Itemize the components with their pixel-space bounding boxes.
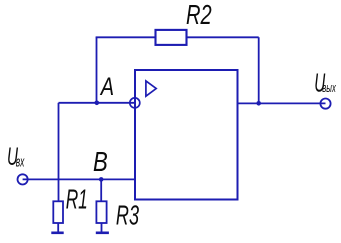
wire node B vertical to R3 — [100, 179, 102, 201]
wire feedback left vertical — [96, 37, 98, 103]
wire input horizontal — [23, 178, 135, 180]
svg-text:R1: R1 — [66, 184, 88, 215]
node A junction — [95, 101, 100, 106]
resistor R1 — [53, 201, 63, 223]
input terminal circle — [18, 174, 28, 184]
node B junction — [99, 177, 104, 182]
ground R1 — [51, 232, 63, 235]
wire R1 ground stub — [57, 223, 59, 232]
wire output horizontal — [238, 102, 326, 104]
wire node A horizontal — [59, 102, 135, 104]
wire left vertical node A to R1 — [58, 103, 60, 202]
op-amp inverting input bubble — [130, 98, 140, 108]
svg-text:R2: R2 — [186, 0, 212, 30]
svg-text:R3: R3 — [116, 200, 139, 231]
resistor R2 — [156, 30, 187, 45]
wire feedback top right horizontal — [187, 36, 259, 38]
svg-text:вх: вх — [16, 154, 25, 171]
wire R3 ground stub — [101, 223, 103, 232]
svg-text:B: B — [93, 146, 108, 177]
resistor R3 — [96, 201, 106, 223]
op-amp triangle symbol — [146, 81, 156, 96]
output junction — [256, 101, 261, 106]
ground R3 — [96, 232, 109, 235]
op-amp U1 body — [135, 70, 238, 200]
svg-text:A: A — [99, 73, 114, 101]
wire feedback top left horizontal — [96, 36, 156, 38]
svg-text:вых: вых — [322, 80, 336, 95]
wire feedback right vertical — [258, 37, 260, 103]
output terminal circle — [320, 99, 330, 109]
